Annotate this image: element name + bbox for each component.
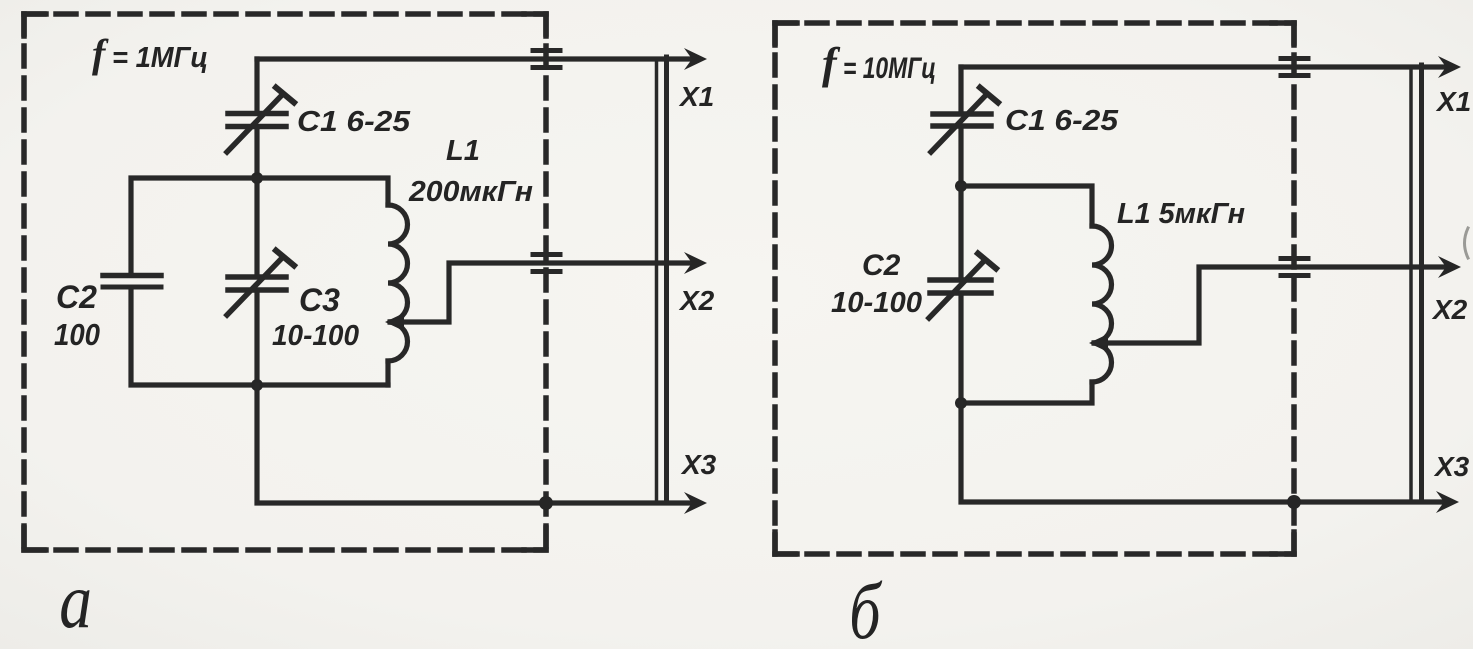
- connector dot on frame crossing X3 (right): [1287, 495, 1301, 509]
- svg-text:C1 6-25: C1 6-25: [297, 106, 411, 138]
- wire: inductor bottom to loop bottom: [385, 361, 390, 385]
- capacitor C2 100 (fixed): [103, 276, 161, 288]
- wire: top output wire to X1 (right): [961, 64, 1452, 69]
- frame crossing ticks X2 (right): [1281, 259, 1308, 276]
- terminal arrow X1 (right): [1438, 56, 1461, 78]
- frame crossing ticks X1 (left): [533, 51, 560, 68]
- svg-text:L1 5мкГн: L1 5мкГн: [1117, 198, 1245, 230]
- terminal arrow X2 (right): [1438, 256, 1461, 278]
- wire: main vertical below C2 (right): [958, 295, 963, 403]
- terminal arrow X1 (left): [684, 48, 707, 70]
- inductor tap arrow: [385, 313, 404, 331]
- inductor L1 5uH coil: [1092, 226, 1112, 382]
- node junction top (right): [955, 180, 967, 192]
- wire: main vertical above C1 (right): [958, 67, 963, 112]
- svg-text:L1: L1: [446, 135, 480, 167]
- svg-text:X3: X3: [680, 449, 717, 480]
- capacitor C1 6-25 (trimmer, right): [931, 88, 998, 153]
- capacitor C2 10-100 (trimmer, right): [929, 254, 996, 319]
- terminal arrow X3 (left): [684, 492, 707, 514]
- wire: inductor bottom to node (right): [961, 382, 1092, 403]
- svg-text:X2: X2: [678, 285, 715, 316]
- svg-text:X3: X3: [1433, 451, 1470, 482]
- frame corner pieces box a: [24, 14, 546, 550]
- terminal arrow X3 (right): [1436, 491, 1459, 513]
- svg-text:C1 6-25: C1 6-25: [1005, 105, 1119, 137]
- capacitor C1 6-25 (trimmer): [227, 88, 294, 153]
- svg-text:= 10МГц: = 10МГц: [843, 52, 936, 85]
- svg-text:10-100: 10-100: [272, 320, 359, 352]
- wire: main vertical below C1: [254, 129, 259, 178]
- wire: main vertical above C2 (right): [958, 186, 963, 278]
- svg-text:X1: X1: [678, 81, 714, 112]
- wire: C2 bottom to loop bottom: [131, 289, 388, 385]
- wire: bottom to X3: [257, 385, 698, 503]
- svg-text:= 1МГц: = 1МГц: [112, 42, 208, 74]
- svg-text:100: 100: [54, 317, 100, 352]
- svg-text:200мкГн: 200мкГн: [408, 176, 533, 208]
- scan artifact arc: [1465, 228, 1469, 258]
- node junction bottom: [251, 379, 263, 391]
- wire: tap to X2 (right): [1094, 267, 1452, 343]
- socket rails (left): [657, 57, 667, 503]
- svg-text:C3: C3: [299, 282, 340, 318]
- frame corner pieces box b: [775, 23, 1294, 554]
- wire: main vertical below C3: [254, 292, 259, 385]
- wire: bottom to X3 (right): [961, 403, 1450, 502]
- wire: node to inductor top: [257, 178, 388, 205]
- wire: node to inductor top (right): [961, 186, 1092, 226]
- node junction top: [251, 172, 263, 184]
- svg-text:X2: X2: [1431, 294, 1468, 325]
- wire: main vertical above C1: [254, 59, 259, 111]
- socket rails (right): [1411, 65, 1422, 502]
- svg-text:C2: C2: [862, 249, 901, 282]
- wire: main vertical above C3: [254, 178, 259, 275]
- inductor tap arrow (right): [1089, 334, 1108, 352]
- frame crossing ticks X1 (right): [1281, 59, 1308, 76]
- node junction bottom (right): [955, 397, 967, 409]
- svg-text:C2: C2: [56, 279, 97, 315]
- svg-text:a: a: [59, 558, 92, 645]
- inductor L1 200uH coil: [388, 205, 408, 361]
- wire: main vertical below C1 (right): [958, 129, 963, 186]
- svg-text:б: б: [849, 567, 882, 649]
- wire: top output wire to X1: [257, 56, 698, 61]
- frame crossing ticks X2 (left): [533, 255, 560, 272]
- connector dot on frame crossing X3 (left): [539, 496, 553, 510]
- svg-text:10-100: 10-100: [831, 287, 922, 319]
- terminal arrow X2 (left): [684, 252, 707, 274]
- wire: node to C2 branch: [131, 178, 257, 273]
- wire: tap to X2: [390, 263, 698, 322]
- dashed frame box b: [775, 23, 1294, 554]
- svg-text:X1: X1: [1435, 86, 1471, 117]
- dashed frame box a: [24, 14, 546, 550]
- capacitor C3 10-100 (trimmer): [227, 251, 294, 316]
